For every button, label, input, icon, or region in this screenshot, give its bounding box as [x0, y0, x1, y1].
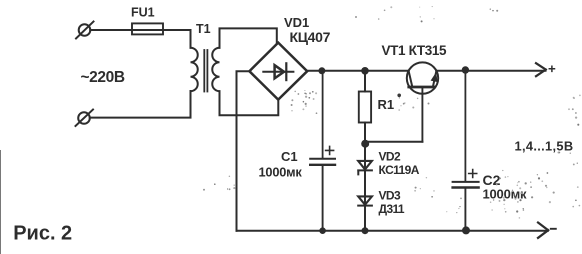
svg-text:VT1 КТ315: VT1 КТ315 — [382, 43, 448, 58]
svg-text:R1: R1 — [378, 97, 395, 112]
svg-text:КЦ407: КЦ407 — [290, 29, 331, 45]
svg-text:VD3: VD3 — [379, 188, 401, 202]
svg-text:C1: C1 — [281, 149, 298, 164]
svg-text:КС119А: КС119А — [379, 163, 420, 177]
svg-text:~220В: ~220В — [81, 69, 125, 86]
svg-text:VD2: VD2 — [379, 150, 401, 164]
svg-text:FU1: FU1 — [131, 5, 155, 19]
svg-text:Рис. 2: Рис. 2 — [13, 223, 72, 245]
svg-text:VD1: VD1 — [284, 15, 309, 30]
svg-text:Д311: Д311 — [379, 202, 405, 216]
svg-text:T1: T1 — [196, 22, 211, 36]
svg-text:1000мк: 1000мк — [259, 165, 303, 180]
svg-text:1,4...1,5В: 1,4...1,5В — [515, 139, 574, 154]
